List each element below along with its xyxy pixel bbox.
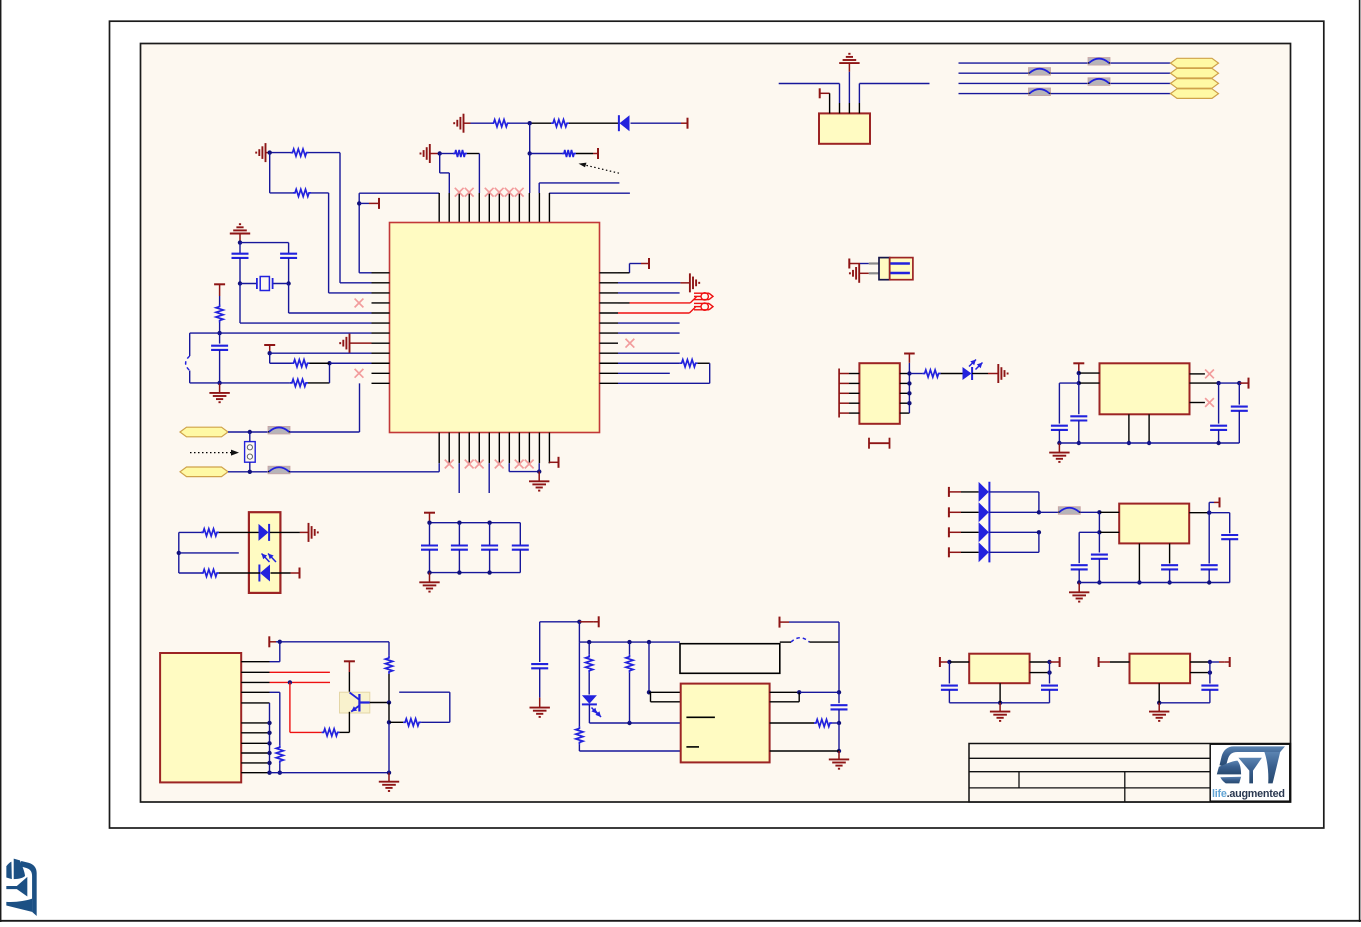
- connector J3: [819, 113, 870, 143]
- capacitor C7: [512, 544, 529, 546]
- node junction: [487, 570, 491, 574]
- capacitor C5: [451, 544, 468, 546]
- transistor Q1: [340, 692, 370, 713]
- wire: [961, 491, 979, 493]
- node junction: [907, 401, 911, 405]
- net tie jump: [1088, 58, 1110, 66]
- wire: [1079, 582, 1230, 584]
- wire: [1190, 672, 1210, 674]
- wire: [1218, 430, 1220, 443]
- resistor R12: [201, 569, 219, 576]
- pin 10 top: [528, 193, 530, 223]
- net flag F: [1171, 89, 1219, 99]
- regulator U5: [1119, 504, 1189, 544]
- wire: [959, 82, 1089, 84]
- node junction: [327, 361, 331, 365]
- ground GND17: [1078, 583, 1080, 593]
- wire: [989, 551, 1039, 553]
- node junction: [577, 620, 581, 624]
- pin right 3: [900, 392, 910, 394]
- pin 12 bottom: [548, 433, 550, 464]
- power pin VCC14: [904, 353, 915, 355]
- node junction: [1097, 580, 1101, 584]
- wire: [388, 703, 390, 723]
- input bus bar: [838, 369, 840, 418]
- wire: [1098, 512, 1100, 532]
- no-connect X: [465, 460, 474, 469]
- wire: [239, 258, 241, 284]
- resistor R3: [453, 150, 467, 157]
- annotation arrow: [190, 452, 233, 454]
- power pin VCC13: [779, 617, 781, 628]
- wire: [959, 62, 1089, 64]
- capacitor C18: [1231, 406, 1248, 408]
- pin left 3: [839, 392, 849, 394]
- outer drawing frame: [110, 21, 1324, 828]
- wire: [999, 683, 1001, 703]
- wire: [549, 192, 630, 194]
- wire: [348, 712, 350, 733]
- node junction: [1207, 580, 1211, 584]
- no-connect X: [1205, 370, 1214, 379]
- wire: [839, 84, 841, 104]
- capacitor C15: [1051, 425, 1068, 427]
- resistor R13: [322, 729, 340, 736]
- pin left 6: [372, 322, 390, 324]
- power pin VCC17: [1208, 502, 1210, 512]
- wire jumper arc: [780, 641, 791, 643]
- net flag E: [1171, 79, 1219, 89]
- wire: [538, 463, 540, 471]
- wire: [266, 152, 270, 154]
- wire: [458, 523, 460, 546]
- node junction: [267, 761, 271, 765]
- ground GND10: [429, 573, 431, 583]
- no-connect X: [455, 188, 464, 197]
- ground GND19: [999, 703, 1001, 712]
- resistor R2: [551, 120, 569, 127]
- node junction: [998, 701, 1002, 705]
- wire: [270, 661, 280, 663]
- wire: [989, 531, 1039, 533]
- wire: [348, 672, 350, 693]
- wire: [270, 671, 330, 673]
- net tie jump: [1088, 78, 1110, 86]
- power pin VCC10: [268, 636, 270, 647]
- no-connect X: [525, 460, 534, 469]
- pin left 1: [839, 373, 849, 375]
- node junction: [1208, 660, 1212, 664]
- node junction: [1037, 530, 1041, 534]
- wire: [961, 551, 979, 553]
- wire: [429, 523, 431, 546]
- node junction: [1077, 371, 1081, 375]
- pin right 5: [900, 412, 910, 414]
- wire: [228, 471, 268, 473]
- wire: [569, 122, 618, 124]
- ground GND7: [680, 282, 690, 284]
- capacitor C13: [1221, 534, 1238, 536]
- ground GND12: [539, 698, 541, 708]
- power pin VCC12: [579, 621, 593, 623]
- regulator U7: [969, 654, 1029, 684]
- wire: [270, 531, 300, 533]
- wire: [1209, 512, 1230, 514]
- wire: [179, 572, 201, 574]
- node junction: [1047, 670, 1051, 674]
- wire: [1208, 513, 1210, 564]
- LED D5: [963, 367, 972, 380]
- pin 12 top: [548, 193, 550, 223]
- power pin VCC16: [819, 88, 821, 98]
- pin right 7: [600, 332, 619, 334]
- pin left 1: [372, 272, 390, 274]
- wire: [1079, 531, 1099, 533]
- net flag C: [1171, 58, 1219, 68]
- node junction: [387, 700, 391, 704]
- pin 7 top: [498, 193, 500, 223]
- node junction: [238, 281, 242, 285]
- wire: [629, 673, 631, 723]
- pin 2 top: [448, 193, 450, 223]
- battery holder BT1: [879, 258, 890, 280]
- wire: [948, 690, 950, 703]
- wire: [578, 622, 580, 642]
- power pin VCC18: [1073, 362, 1084, 364]
- jumper link: [868, 438, 870, 449]
- node junction: [248, 430, 252, 434]
- ground GND20: [1158, 703, 1160, 712]
- wire: [489, 550, 491, 573]
- node junction: [267, 751, 271, 755]
- wire: [240, 242, 289, 244]
- wire: [618, 332, 680, 334]
- wire: [961, 511, 979, 513]
- node junction: [907, 381, 911, 385]
- page right edge line: [1359, 0, 1361, 922]
- wire: [539, 668, 541, 697]
- wire: [270, 352, 372, 354]
- capacitor C12: [1161, 564, 1178, 566]
- resistor R15: [385, 656, 392, 674]
- node junction: [438, 151, 442, 155]
- pin right 2: [600, 282, 619, 284]
- node junction: [268, 351, 272, 355]
- pin 6 top: [488, 193, 490, 223]
- net tie jump: [1029, 88, 1051, 96]
- wire: [249, 432, 251, 442]
- wire: [1030, 672, 1050, 674]
- pin right 11: [600, 372, 619, 374]
- wire: [1128, 414, 1130, 443]
- pin right 3: [600, 292, 619, 294]
- pin left 9: [372, 352, 390, 354]
- power pin VCC6: [630, 263, 642, 265]
- ground GND11: [388, 773, 390, 782]
- pin right 5: [600, 312, 619, 314]
- diode D7: [979, 502, 989, 522]
- ground GND2: [429, 144, 431, 163]
- power pin VCC7: [548, 461, 550, 464]
- pin left 8: [372, 342, 390, 344]
- arrows: [262, 554, 270, 563]
- wire jumper arc: [186, 356, 190, 371]
- no-connect X: [355, 299, 364, 308]
- pin left 2: [372, 282, 390, 284]
- relay K1 outline: [680, 644, 780, 674]
- node junction: [1147, 441, 1151, 445]
- pin 1 top: [438, 193, 440, 223]
- wire: [1190, 373, 1205, 375]
- ground GND16: [848, 72, 850, 103]
- wire: [832, 722, 839, 724]
- pin 2: [241, 671, 269, 673]
- wire: [1238, 383, 1240, 405]
- diode D1: [620, 115, 630, 131]
- node junction: [1077, 381, 1081, 385]
- node junction: [387, 720, 391, 724]
- wire: [519, 550, 521, 573]
- pin 2: [839, 103, 841, 113]
- node junction: [1216, 441, 1220, 445]
- wire: [588, 642, 590, 655]
- capacitor C8: [531, 663, 548, 665]
- capacitor C20: [1041, 685, 1058, 687]
- resistor R7: [216, 305, 223, 323]
- page left edge line: [0, 0, 2, 922]
- wire: [949, 702, 1049, 704]
- wire: [539, 622, 541, 662]
- net tie jump: [268, 466, 290, 474]
- pin 4: [858, 103, 860, 113]
- wire: [1218, 383, 1220, 424]
- no-connect X: [505, 188, 514, 197]
- wire: [941, 373, 963, 375]
- pin 8 top: [508, 193, 510, 223]
- ground GND13: [838, 751, 840, 759]
- pin 8: [241, 742, 269, 744]
- pin left 10: [372, 362, 390, 364]
- ground GND4: [230, 233, 250, 235]
- pin 9: [241, 752, 269, 754]
- pin 5 top: [478, 193, 480, 223]
- pin right 1: [900, 373, 910, 375]
- wire: [1098, 532, 1100, 552]
- ground GND1: [463, 114, 465, 133]
- resistor R11: [201, 529, 219, 536]
- wire: [578, 642, 580, 726]
- wire: [838, 692, 840, 703]
- wire: [1110, 661, 1130, 663]
- net tie jump: [268, 426, 290, 434]
- wire: [650, 692, 652, 702]
- wire: [631, 122, 682, 124]
- wire: [1078, 383, 1080, 414]
- node junction: [278, 640, 282, 644]
- wire: [588, 705, 590, 723]
- wire: [508, 463, 510, 471]
- LED D4: [582, 695, 597, 704]
- wire: [1059, 382, 1078, 384]
- pin left 5: [839, 412, 849, 414]
- node junction: [1237, 381, 1241, 385]
- wire: [467, 153, 479, 155]
- wire: [1079, 382, 1100, 384]
- node junction: [1037, 510, 1041, 514]
- wire: [540, 621, 580, 623]
- pin 8 bottom: [508, 433, 510, 464]
- ground GND3: [265, 143, 267, 162]
- wire: [629, 264, 631, 273]
- pin left 3: [372, 292, 390, 294]
- wire: [289, 682, 291, 732]
- node junction: [797, 690, 801, 694]
- power pin VCC22: [1098, 657, 1100, 667]
- wire: [309, 152, 341, 154]
- wire: [629, 642, 631, 655]
- pin 10 bottom: [528, 433, 530, 464]
- wire: [359, 192, 439, 194]
- node junction: [487, 521, 491, 525]
- capacitor C2: [280, 253, 297, 255]
- capacitor C3: [211, 345, 228, 347]
- resistor network U4: [859, 363, 899, 424]
- pin 3: [848, 103, 850, 113]
- off-page connector: [694, 302, 709, 304]
- wire: [1039, 511, 1058, 513]
- node junction: [357, 201, 361, 205]
- node junction: [427, 521, 431, 525]
- wire: [429, 550, 431, 573]
- power pin VCC19: [1239, 382, 1243, 384]
- wire: [789, 621, 839, 623]
- resistor R5: [291, 149, 309, 156]
- pin right 9: [600, 352, 619, 354]
- no-connect X: [475, 460, 484, 469]
- wire: [440, 153, 453, 155]
- wire: [1099, 531, 1119, 533]
- wire: [1208, 570, 1210, 583]
- wire: [770, 722, 814, 724]
- node junction: [267, 771, 271, 775]
- node junction: [1097, 510, 1101, 514]
- wire: [1219, 382, 1240, 384]
- no-connect X: [485, 188, 494, 197]
- capacitor C14: [1201, 564, 1218, 566]
- pin: [869, 262, 879, 264]
- wire: [618, 282, 680, 284]
- ST logo: [1217, 746, 1285, 783]
- node junction: [647, 690, 651, 694]
- power pin VCC15: [848, 259, 850, 269]
- node junction: [278, 771, 282, 775]
- power pin VIN1: [948, 487, 950, 497]
- node junction: [177, 551, 181, 555]
- wire: [270, 691, 280, 693]
- wire: [972, 373, 988, 375]
- wire: [178, 532, 180, 573]
- wire: [340, 731, 350, 733]
- node junction: [1077, 580, 1081, 584]
- wire: [219, 333, 221, 344]
- wire: [959, 93, 1029, 95]
- no-connect X: [515, 188, 524, 197]
- pin right 2: [900, 382, 910, 384]
- wire: [388, 722, 390, 772]
- wire: [1169, 543, 1171, 563]
- arrows: [592, 708, 598, 714]
- wire: [458, 550, 460, 573]
- wire: [388, 642, 390, 656]
- node junction: [627, 721, 631, 725]
- wire: [228, 431, 268, 433]
- power pin VCC2: [576, 153, 593, 155]
- wire: [1159, 702, 1210, 704]
- pin 6 bottom: [488, 433, 490, 464]
- pin 1 bottom: [438, 433, 440, 464]
- wire: [271, 572, 291, 574]
- ground GND8: [538, 472, 540, 482]
- node junction: [627, 640, 631, 644]
- jumper J1: [245, 442, 256, 463]
- pin left 12: [372, 382, 390, 384]
- power pin VCC1: [681, 122, 688, 124]
- optocoupler U2: [249, 512, 281, 593]
- power pin VIN3: [948, 527, 950, 537]
- node junction: [267, 741, 271, 745]
- node junction: [267, 721, 271, 725]
- pin left 2: [839, 382, 849, 384]
- pin left 7: [372, 332, 390, 334]
- wire: [421, 721, 450, 723]
- title block: [969, 744, 1291, 802]
- node junction: [907, 371, 911, 375]
- pin 6: [241, 722, 269, 724]
- node junction: [1216, 381, 1220, 385]
- wire: [219, 572, 260, 574]
- wire: [179, 552, 239, 554]
- node junction: [1157, 701, 1161, 705]
- node junction: [837, 749, 841, 753]
- arrows: [969, 360, 976, 367]
- net flag A: [180, 427, 228, 437]
- wire: [838, 723, 840, 751]
- pin 3 top: [458, 193, 460, 223]
- node junction: [1057, 441, 1061, 445]
- diode D8: [979, 522, 989, 542]
- resistor R20: [814, 719, 832, 726]
- no-connect X: [626, 339, 635, 348]
- wire: [311, 192, 329, 194]
- wire: [618, 372, 670, 374]
- wire: [1078, 373, 1080, 383]
- page bottom edge line: [0, 920, 1361, 922]
- pin right 1: [600, 272, 619, 274]
- node junction: [288, 680, 292, 684]
- net flag D: [1171, 68, 1219, 78]
- pin left 11: [372, 372, 390, 374]
- wire: [430, 153, 440, 155]
- wire: [1080, 511, 1099, 513]
- pin left 4: [839, 402, 849, 404]
- wire: [529, 123, 531, 153]
- power pin VCC5: [264, 344, 275, 346]
- pin 5 bottom: [478, 433, 480, 464]
- wire: [1049, 662, 1051, 684]
- pin name bar: [686, 716, 715, 718]
- wire: [618, 292, 680, 294]
- wire: [649, 691, 681, 693]
